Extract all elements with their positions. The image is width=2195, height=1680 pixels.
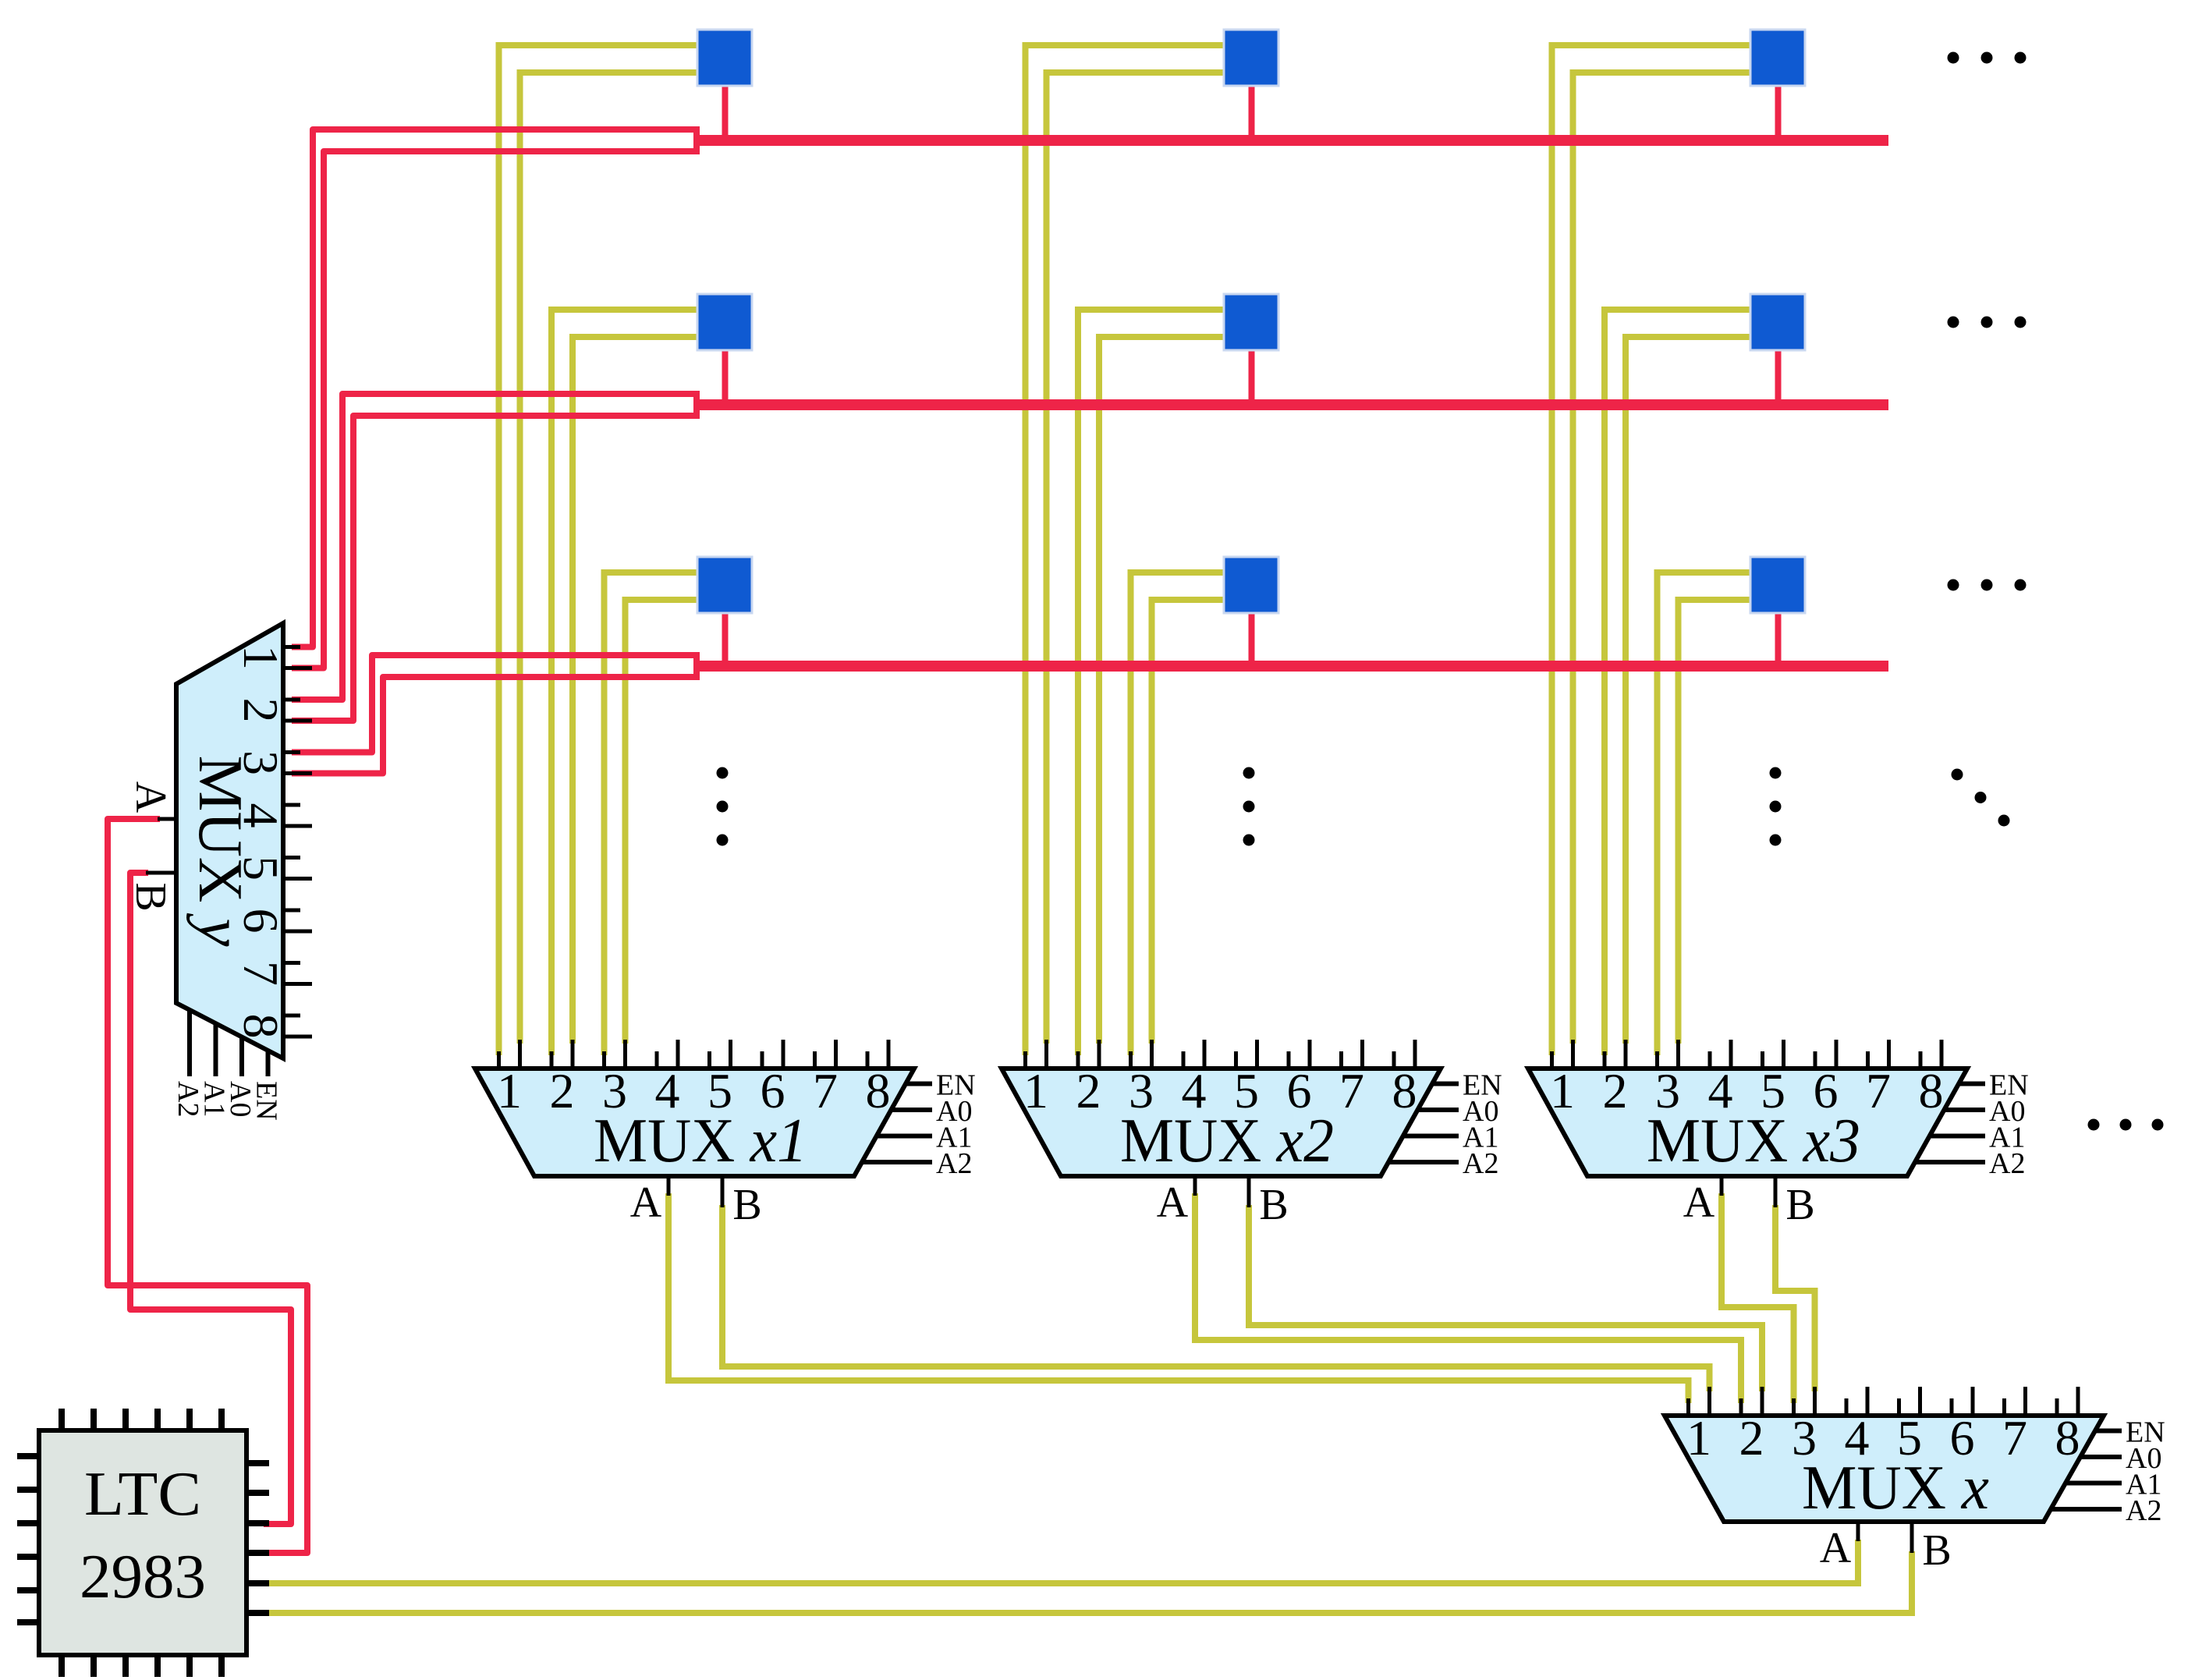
svg-text:LTC: LTC	[84, 1460, 201, 1529]
svg-text:2983: 2983	[80, 1543, 206, 1611]
svg-text:7: 7	[233, 961, 289, 986]
svg-text:7: 7	[2002, 1410, 2027, 1466]
wire col2 sensor-row2 B (yellow)	[1099, 337, 1226, 1044]
multiplexer U1 MUX y labels	[233, 645, 289, 670]
wire col3 sensor-row1 A (yellow)	[1552, 45, 1754, 1055]
wire MUX y pin 3A to row3 bus (red)	[292, 655, 700, 753]
multiplexer U4 MUX x3 pins	[1550, 1051, 1554, 1070]
ellipsis dots (more rows, each column)	[717, 767, 729, 779]
svg-text:MUX y: MUX y	[186, 756, 254, 947]
wire MUX y pin 1B to row1 bus (red)	[292, 151, 700, 668]
row2 bus (red)	[697, 399, 1888, 410]
wire MUX x1 output A to MUX x pin 1A (yellow)	[668, 1193, 1689, 1403]
wire sensor row2 col2 to bus (red)	[1249, 349, 1255, 405]
svg-text:1: 1	[1550, 1063, 1575, 1118]
svg-text:2: 2	[1739, 1410, 1764, 1466]
svg-text:A: A	[630, 1178, 662, 1227]
thermistor sensor R12	[1224, 30, 1278, 86]
junction row3 bus left cap	[693, 652, 700, 680]
svg-text:A: A	[1157, 1178, 1189, 1227]
wire MUX x2 output A to MUX x pin 2A (yellow)	[1195, 1193, 1741, 1403]
multiplexer U2 MUX x1 pins	[497, 1051, 501, 1070]
wire col2 sensor-row2 A (yellow)	[1078, 310, 1226, 1055]
wire col1 sensor-row1 B (yellow)	[520, 73, 700, 1044]
svg-text:B: B	[1259, 1181, 1288, 1229]
svg-text:1: 1	[497, 1063, 522, 1118]
svg-text:A: A	[1683, 1178, 1715, 1227]
svg-text:2: 2	[1076, 1063, 1101, 1118]
IC U6 LTC2983 pins	[59, 1409, 65, 1432]
wire col1 sensor-row1 A (yellow)	[499, 45, 700, 1055]
wire sensor row2 col3 to bus (red)	[1775, 349, 1782, 405]
svg-text:MUX x2: MUX x2	[1120, 1107, 1334, 1175]
wire MUX y output A to LTC2983 (red)	[108, 819, 307, 1553]
wire MUX y pin 2B to row2 bus (red)	[292, 416, 700, 721]
wire sensor row3 col2 to bus (red)	[1249, 611, 1255, 666]
multiplexer U5 MUX x pins	[1686, 1398, 1690, 1417]
row3 bus (red)	[697, 661, 1888, 672]
thermistor sensor R32	[1224, 557, 1278, 613]
ellipsis dots (diagonal, more rows+columns)	[1952, 769, 1963, 781]
multiplexer U3 MUX x2 body	[1002, 1069, 1441, 1176]
wire MUX y pin 3B to row3 bus (red)	[292, 677, 700, 774]
svg-text:A2: A2	[172, 1081, 204, 1117]
multiplexer U1 MUX y body	[176, 623, 283, 1058]
wire col3 sensor-row2 A (yellow)	[1605, 310, 1753, 1055]
svg-text:A2: A2	[1989, 1147, 2025, 1180]
junction row2 bus left cap	[693, 391, 700, 419]
IC U6 LTC2983 body	[39, 1430, 246, 1655]
wire MUX x output B to LTC2983 (yellow)	[265, 1551, 1912, 1613]
wire col1 sensor-row3 A (yellow)	[605, 572, 700, 1055]
svg-text:A2: A2	[1463, 1147, 1498, 1180]
thermistor sensor R11	[697, 30, 752, 86]
row1 bus (red)	[697, 135, 1888, 146]
svg-text:8: 8	[1392, 1063, 1417, 1118]
thermistor sensor R13	[1750, 30, 1805, 86]
wire MUX x3 output B to MUX x pin 3B (yellow)	[1775, 1205, 1815, 1391]
thermistor sensor R21	[697, 294, 752, 350]
wire MUX y pin 2A to row2 bus (red)	[292, 394, 700, 700]
svg-text:A: A	[126, 782, 175, 813]
thermistor sensor R22	[1224, 294, 1278, 350]
wire col3 sensor-row1 B (yellow)	[1573, 73, 1754, 1044]
svg-text:2: 2	[1603, 1063, 1628, 1118]
multiplexer U2 MUX x1 body	[475, 1069, 914, 1176]
svg-text:8: 8	[1919, 1063, 1944, 1118]
wire col3 sensor-row3 B (yellow)	[1679, 600, 1754, 1044]
thermistor sensor R23	[1750, 294, 1805, 350]
wire sensor row1 col2 to bus (red)	[1249, 84, 1255, 140]
multiplexer U4 MUX x3 body	[1528, 1069, 1967, 1176]
wire MUX y pin 1A to row1 bus (red)	[292, 129, 700, 647]
wire col3 sensor-row3 A (yellow)	[1658, 572, 1754, 1055]
svg-text:A2: A2	[936, 1147, 972, 1180]
multiplexer U1 MUX y pins	[282, 645, 300, 649]
wire col3 sensor-row2 B (yellow)	[1626, 337, 1753, 1044]
wire MUX x1 output B to MUX x pin 1B (yellow)	[722, 1205, 1710, 1391]
wire col1 sensor-row3 B (yellow)	[626, 600, 700, 1044]
svg-text:1: 1	[233, 645, 289, 670]
svg-text:2: 2	[233, 698, 289, 723]
multiplexer U5 MUX x body	[1665, 1416, 2104, 1522]
thermistor sensor R31	[697, 557, 752, 613]
ellipsis dots (more columns, each row)	[1948, 52, 1959, 64]
wire col2 sensor-row3 A (yellow)	[1131, 572, 1227, 1055]
svg-text:7: 7	[1339, 1063, 1364, 1118]
wire col1 sensor-row2 A (yellow)	[551, 310, 700, 1055]
svg-text:B: B	[126, 882, 175, 911]
svg-text:8: 8	[866, 1063, 891, 1118]
wire MUX x2 output B to MUX x pin 2B (yellow)	[1249, 1205, 1762, 1391]
wire MUX x3 output A to MUX x pin 3A (yellow)	[1722, 1193, 1794, 1403]
multiplexer U3 MUX x2 pins	[1023, 1051, 1027, 1070]
svg-text:1: 1	[1023, 1063, 1048, 1118]
wire sensor row3 col3 to bus (red)	[1775, 611, 1782, 666]
ellipsis dots (more column MUXes)	[2088, 1119, 2100, 1131]
svg-text:MUX x: MUX x	[1802, 1454, 1989, 1522]
wire MUX x output A to LTC2983 (yellow)	[265, 1540, 1858, 1583]
wire sensor row2 col1 to bus (red)	[722, 349, 729, 405]
wire col2 sensor-row1 B (yellow)	[1047, 73, 1227, 1044]
wire col1 sensor-row2 B (yellow)	[573, 337, 700, 1044]
svg-text:B: B	[1922, 1526, 1951, 1575]
wire col2 sensor-row3 B (yellow)	[1152, 600, 1227, 1044]
svg-text:MUX x1: MUX x1	[594, 1107, 807, 1175]
wire sensor row1 col1 to bus (red)	[722, 84, 729, 140]
svg-text:A: A	[1820, 1524, 1852, 1572]
junction row1 bus left cap	[693, 126, 700, 154]
wire MUX y output B to LTC2983 (red)	[130, 873, 291, 1524]
svg-text:8: 8	[233, 1014, 289, 1039]
svg-text:MUX x3: MUX x3	[1647, 1107, 1860, 1175]
svg-text:1: 1	[1686, 1410, 1711, 1466]
svg-text:7: 7	[1866, 1063, 1891, 1118]
wire sensor row3 col1 to bus (red)	[722, 611, 729, 666]
thermistor sensor R33	[1750, 557, 1805, 613]
svg-text:B: B	[1785, 1181, 1814, 1229]
svg-text:A2: A2	[2126, 1494, 2161, 1527]
wire sensor row1 col3 to bus (red)	[1775, 84, 1782, 140]
svg-text:2: 2	[550, 1063, 575, 1118]
wire col2 sensor-row1 A (yellow)	[1026, 45, 1227, 1055]
svg-text:7: 7	[813, 1063, 838, 1118]
svg-text:B: B	[732, 1181, 761, 1229]
svg-text:8: 8	[2055, 1410, 2080, 1466]
